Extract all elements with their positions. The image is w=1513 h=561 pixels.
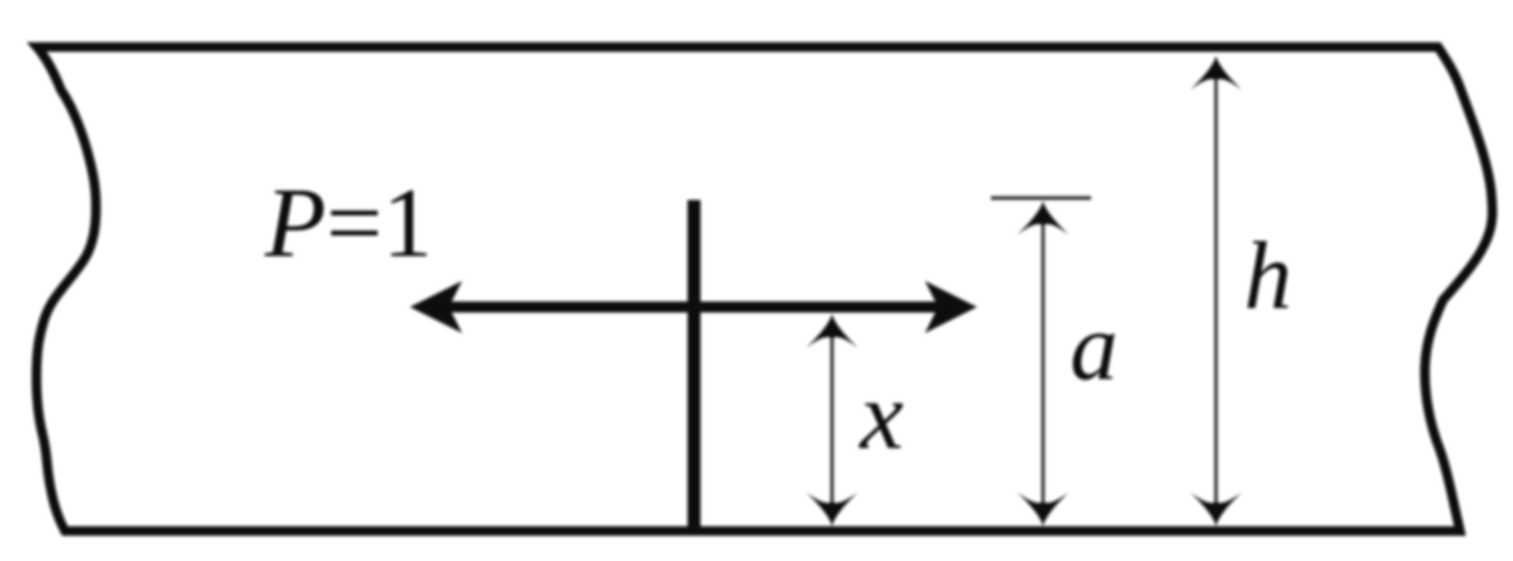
svg-text:P=1: P=1: [264, 167, 433, 278]
load arrow P: left head: [410, 281, 462, 333]
dimension arrow x: shaft: [830, 322, 833, 518]
dimension arrow h: shaft: [1214, 64, 1217, 518]
svg-text:h: h: [1244, 222, 1292, 329]
svg-text:x: x: [858, 362, 904, 470]
dimension arrow h: bottom head: [1190, 492, 1242, 526]
load arrow P: shaft: [445, 302, 942, 313]
svg-text:a: a: [1070, 293, 1118, 400]
load arrow P: right head: [925, 281, 977, 333]
dimension arrow a: top head: [1017, 201, 1069, 235]
dimension arrow a: shaft: [1041, 208, 1044, 518]
crack line (vertical): [688, 200, 701, 530]
dimension arrow h: top head: [1190, 56, 1242, 90]
dimension arrow a: bottom head: [1017, 492, 1069, 526]
dimension arrow x: bottom head: [806, 492, 858, 526]
dimension arrow a: top tick: [991, 196, 1091, 199]
dimension arrow x: top head: [806, 314, 858, 348]
